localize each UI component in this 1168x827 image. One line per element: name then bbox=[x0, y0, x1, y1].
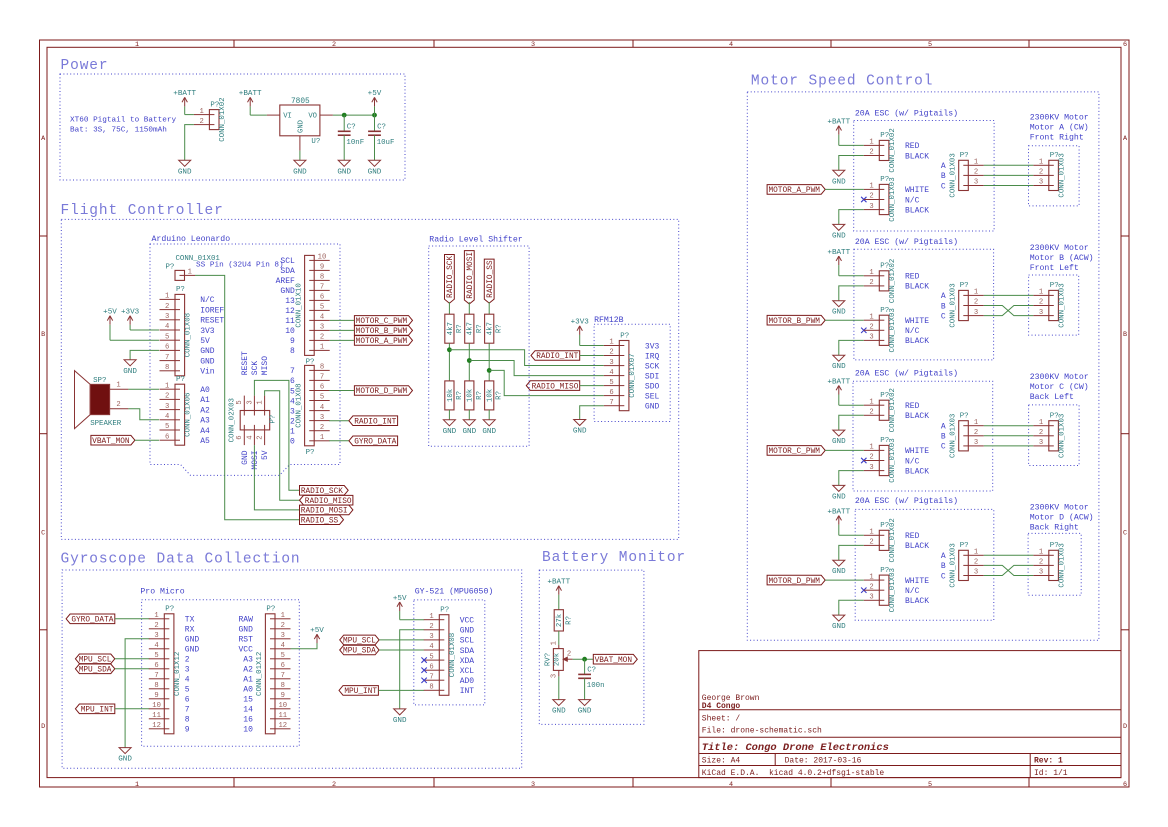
global label VBAT_MON (Arduino) bbox=[91, 435, 135, 446]
junction RADIO_SS divider node bbox=[487, 368, 492, 373]
svg-text:A1: A1 bbox=[200, 396, 210, 405]
svg-text:File: drone-schematic.sch: File: drone-schematic.sch bbox=[702, 726, 822, 735]
svg-text:3: 3 bbox=[165, 403, 169, 411]
pin name labels A0-A5 bbox=[200, 386, 210, 446]
svg-text:6: 6 bbox=[609, 389, 613, 397]
wire ESC A power pin 2 to GND bbox=[839, 156, 864, 171]
title block bbox=[699, 651, 1121, 779]
svg-text:CONN_01X03: CONN_01X03 bbox=[949, 153, 957, 197]
global label MOTOR_D_PWM bbox=[354, 386, 412, 397]
svg-text:RADIO_SS: RADIO_SS bbox=[487, 260, 495, 298]
svg-text:7: 7 bbox=[429, 673, 433, 681]
wire pin 6 to MOTOR_D_PWM bbox=[329, 390, 354, 392]
svg-text:SCK: SCK bbox=[645, 362, 660, 371]
pin labels RED BLACK (ESC D) bbox=[905, 532, 929, 551]
svg-text:GND: GND bbox=[832, 493, 846, 501]
resistor R? 4k7 (RADIO_SS) bbox=[485, 314, 504, 343]
pin name labels 3V3 IRQ SCK SDI SDO SEL GND bbox=[645, 342, 660, 411]
svg-text:B: B bbox=[941, 302, 946, 311]
svg-text:7: 7 bbox=[281, 672, 285, 680]
wire RV? pin 3 to GND bbox=[558, 676, 560, 699]
ground (ESC B signal) bbox=[832, 355, 846, 371]
svg-text:B: B bbox=[941, 562, 946, 571]
svg-text:P?: P? bbox=[166, 264, 175, 272]
wire +5V to GY-521 pin 1 bbox=[400, 619, 424, 621]
svg-text:3: 3 bbox=[154, 632, 158, 640]
connector P? CONN_01X12 (Pro Micro right) bbox=[256, 606, 290, 734]
svg-text:20A ESC (w/ Pigtails): 20A ESC (w/ Pigtails) bbox=[855, 237, 958, 247]
svg-text:BLACK: BLACK bbox=[905, 206, 929, 215]
svg-text:GND: GND bbox=[178, 168, 192, 176]
svg-text:KiCad E.D.A. kicad 4.0.2+dfsg: KiCad E.D.A. kicad 4.0.2+dfsg1-stable bbox=[702, 769, 885, 778]
svg-text:P?: P? bbox=[165, 606, 174, 614]
global label RADIO_MISO (RFM12B) bbox=[526, 381, 579, 392]
svg-text:N/C: N/C bbox=[200, 296, 215, 305]
svg-text:7: 7 bbox=[609, 399, 613, 407]
wire MOSI divider to RFM12B pin 4 bbox=[469, 361, 604, 376]
svg-text:CONN_01X12: CONN_01X12 bbox=[174, 652, 182, 696]
svg-text:5: 5 bbox=[609, 379, 613, 387]
svg-text:27k: 27k bbox=[556, 613, 564, 627]
svg-text:1: 1 bbox=[974, 549, 978, 557]
svg-text:Back Right: Back Right bbox=[1030, 522, 1079, 532]
svg-text:XCL: XCL bbox=[460, 667, 475, 676]
svg-text:GND: GND bbox=[293, 168, 307, 176]
svg-text:2: 2 bbox=[869, 583, 873, 591]
svg-text:WHITE: WHITE bbox=[905, 577, 929, 586]
svg-text:GND: GND bbox=[393, 717, 407, 725]
Battery Monitor dotted box bbox=[539, 570, 644, 724]
no-connect X on ESC C signal pin 2 bbox=[861, 458, 866, 463]
svg-text:Flight Controller: Flight Controller bbox=[61, 203, 224, 219]
svg-text:N/C: N/C bbox=[905, 327, 920, 336]
power symbol +BATT (regulator input) bbox=[239, 90, 262, 115]
resistor R? 10k (RADIO_MOSI) bbox=[465, 381, 484, 410]
svg-text:2: 2 bbox=[974, 429, 978, 437]
global label VBAT_MON (battery monitor) bbox=[593, 654, 637, 665]
svg-text:GND: GND bbox=[185, 646, 200, 655]
svg-text:C: C bbox=[41, 530, 45, 538]
wire ESC D phase B crossed to motor pin 3 bbox=[984, 565, 1034, 575]
svg-text:GND: GND bbox=[573, 428, 587, 436]
svg-text:A0: A0 bbox=[243, 686, 253, 695]
svg-text:4: 4 bbox=[729, 41, 733, 49]
svg-text:4: 4 bbox=[429, 643, 433, 651]
ground (RFM12B) bbox=[573, 420, 587, 436]
svg-text:1: 1 bbox=[869, 573, 873, 581]
connector P? CONN_01X10 (Arduino digital high header) bbox=[295, 254, 329, 367]
wire ESC B phase C crossed to motor pin 2 bbox=[984, 306, 1034, 316]
svg-text:GND: GND bbox=[832, 363, 846, 371]
connector P? CONN_01X08 (Arduino digital low header) bbox=[295, 364, 329, 457]
svg-text:RED: RED bbox=[905, 402, 920, 411]
pin labels A B C (ESC B output) bbox=[941, 292, 946, 321]
svg-text:INT: INT bbox=[460, 687, 475, 696]
svg-text:A0: A0 bbox=[200, 386, 210, 395]
resistor R? 4k7 (RADIO_SCK) bbox=[445, 314, 464, 343]
svg-text:10: 10 bbox=[152, 702, 161, 710]
global label RADIO_MISO (Arduino) bbox=[300, 495, 353, 506]
pin labels WHITE N/C BLACK (ESC D) bbox=[905, 577, 929, 606]
wire ICSP MISO to RADIO_MISO label bbox=[265, 391, 300, 501]
connector P? CONN_01X12 (Pro Micro left) bbox=[149, 606, 182, 734]
pin labels A B C (ESC A output) bbox=[941, 162, 946, 191]
wire P? pin 2 to GND bbox=[185, 125, 194, 161]
svg-text:12: 12 bbox=[285, 307, 295, 316]
svg-text:3V3: 3V3 bbox=[200, 327, 215, 336]
svg-text:3: 3 bbox=[974, 179, 978, 187]
svg-text:C: C bbox=[941, 312, 946, 321]
svg-text:6: 6 bbox=[165, 433, 169, 441]
svg-text:8: 8 bbox=[290, 347, 295, 356]
svg-text:1: 1 bbox=[257, 400, 265, 404]
svg-text:CONN_01X03: CONN_01X03 bbox=[1058, 543, 1066, 587]
wire C? 10uF to GND bbox=[374, 135, 376, 160]
svg-text:2: 2 bbox=[1039, 299, 1043, 307]
pin labels RED BLACK (ESC A) bbox=[905, 142, 929, 161]
svg-text:11: 11 bbox=[152, 712, 161, 720]
svg-text:5: 5 bbox=[429, 653, 433, 661]
svg-text:CONN_01X02: CONN_01X02 bbox=[889, 518, 897, 562]
svg-text:RV?: RV? bbox=[545, 653, 553, 666]
global label RADIO_INT (Arduino) bbox=[349, 416, 398, 427]
svg-text:CONN_01X07: CONN_01X07 bbox=[629, 353, 637, 397]
svg-text:CONN_01X03: CONN_01X03 bbox=[889, 438, 897, 482]
wire +BATT to P? pin 1 bbox=[185, 114, 194, 116]
wire RADIO_SCK to resistor bbox=[448, 302, 450, 314]
svg-text:Front Left: Front Left bbox=[1030, 263, 1079, 273]
svg-text:N/C: N/C bbox=[905, 196, 920, 205]
svg-text:2: 2 bbox=[974, 169, 978, 177]
svg-text:4k7: 4k7 bbox=[467, 322, 475, 335]
wire VO to +5V rail bbox=[333, 114, 375, 116]
svg-text:+BATT: +BATT bbox=[827, 119, 850, 127]
svg-text:5: 5 bbox=[290, 387, 295, 396]
svg-text:8: 8 bbox=[154, 682, 158, 690]
svg-text:VO: VO bbox=[308, 113, 317, 121]
svg-text:1: 1 bbox=[1039, 549, 1043, 557]
wire RADIO_INT to pin 2 bbox=[580, 355, 604, 357]
svg-text:2: 2 bbox=[320, 424, 324, 432]
svg-text:10: 10 bbox=[318, 254, 327, 262]
svg-text:20A ESC (w/ Pigtails): 20A ESC (w/ Pigtails) bbox=[855, 368, 958, 378]
global label MPU_SDA (Pro Micro) bbox=[75, 664, 114, 675]
svg-text:3: 3 bbox=[869, 464, 873, 472]
svg-text:GND: GND bbox=[460, 627, 475, 636]
ground (Pro Micro) bbox=[118, 748, 132, 764]
svg-text:9: 9 bbox=[290, 337, 295, 346]
svg-text:CONN_01X02: CONN_01X02 bbox=[889, 388, 897, 432]
svg-text:GND: GND bbox=[337, 168, 351, 176]
Motor Speed Control dotted box bbox=[747, 92, 1099, 640]
svg-text:1: 1 bbox=[869, 139, 873, 147]
svg-text:3: 3 bbox=[609, 359, 613, 367]
svg-text:GND: GND bbox=[241, 450, 250, 465]
pin labels WHITE N/C BLACK (ESC B) bbox=[905, 317, 929, 346]
connector P? CONN_01X02 (ESC D battery leads) bbox=[864, 518, 897, 562]
pin name labels VCC GND SCL SDA XDA XCL AD0 INT bbox=[460, 617, 475, 697]
ground (GY-521) bbox=[393, 709, 407, 725]
svg-text:8: 8 bbox=[320, 364, 324, 372]
svg-text:GND: GND bbox=[297, 120, 305, 133]
wire ESC B phase A to motor pin 1 bbox=[984, 294, 1034, 296]
svg-text:MPU_SDA: MPU_SDA bbox=[79, 667, 112, 675]
svg-text:GND: GND bbox=[645, 403, 660, 412]
svg-text:2: 2 bbox=[869, 149, 873, 157]
svg-text:GND: GND bbox=[552, 708, 566, 716]
global label MPU_INT (Pro Micro) bbox=[75, 704, 114, 715]
global label MOTOR_C_PWM bbox=[354, 316, 412, 327]
power symbol +BATT (ESC A) bbox=[827, 119, 850, 146]
svg-text:CONN_01X03: CONN_01X03 bbox=[889, 177, 897, 221]
no-connect X on pin 5 bbox=[421, 657, 426, 662]
svg-text:3: 3 bbox=[320, 414, 324, 422]
svg-text:13: 13 bbox=[285, 297, 295, 306]
wire RADIO_MOSI divider bbox=[468, 343, 470, 381]
svg-text:8: 8 bbox=[165, 364, 169, 372]
svg-text:7805: 7805 bbox=[291, 98, 310, 106]
pin name labels SCL SDA AREF GND 13-8 bbox=[276, 257, 295, 356]
wire 10k to GND (RADIO_MOSI) bbox=[468, 410, 470, 420]
svg-text:AD0: AD0 bbox=[460, 677, 475, 686]
wire pin 3 to MOTOR_B_PWM bbox=[330, 329, 355, 331]
svg-text:+5V: +5V bbox=[368, 90, 382, 98]
svg-text:15: 15 bbox=[243, 696, 253, 705]
svg-text:4: 4 bbox=[729, 781, 733, 789]
global label GYRO_DATA (Arduino) bbox=[349, 436, 398, 447]
svg-text:2: 2 bbox=[1039, 429, 1043, 437]
svg-text:2: 2 bbox=[869, 324, 873, 332]
svg-text:3: 3 bbox=[246, 400, 254, 404]
ground (100n) bbox=[578, 700, 592, 716]
text note XT60 Pigtail to Battery bbox=[70, 117, 176, 135]
svg-text:MPU_SDA: MPU_SDA bbox=[343, 648, 376, 656]
wire pin 3 to GND (Pro Micro) bbox=[125, 639, 149, 748]
svg-text:C: C bbox=[1123, 530, 1127, 538]
svg-text:RESET: RESET bbox=[200, 317, 224, 326]
svg-text:U?: U? bbox=[311, 138, 320, 146]
wire ICSP SCK to RADIO_SCK label bbox=[254, 380, 299, 490]
svg-text:VBAT_MON: VBAT_MON bbox=[595, 657, 633, 665]
svg-text:2: 2 bbox=[154, 622, 158, 630]
svg-text:8: 8 bbox=[429, 684, 433, 692]
svg-text:Motor D (ACW): Motor D (ACW) bbox=[1030, 512, 1094, 522]
connector P? CONN_01X03 (motor D) bbox=[1033, 542, 1066, 587]
wire RFM12B pin 7 to GND bbox=[580, 406, 604, 420]
wire GYRO_DATA to pin 1 bbox=[115, 618, 150, 620]
connector P? CONN_01X03 (ESC B output) bbox=[949, 282, 983, 327]
svg-text:C?: C? bbox=[377, 124, 386, 132]
svg-text:+BATT: +BATT bbox=[547, 579, 570, 587]
motor A dotted box bbox=[1029, 146, 1080, 206]
svg-text:2: 2 bbox=[165, 393, 169, 401]
svg-text:6: 6 bbox=[290, 377, 295, 386]
svg-text:+BATT: +BATT bbox=[827, 249, 850, 257]
ground (10uF) bbox=[368, 160, 382, 176]
svg-text:WHITE: WHITE bbox=[905, 186, 929, 195]
svg-text:4k7: 4k7 bbox=[487, 322, 495, 335]
global label RADIO_SCK (Arduino) bbox=[300, 486, 349, 497]
wire ESC A signal pin 3 to GND bbox=[839, 210, 864, 225]
svg-text:Sheet: /: Sheet: / bbox=[702, 714, 741, 723]
svg-text:MPU_INT: MPU_INT bbox=[344, 688, 377, 696]
svg-text:+3V3: +3V3 bbox=[121, 309, 140, 317]
svg-text:10: 10 bbox=[278, 702, 287, 710]
svg-text:GND: GND bbox=[832, 232, 846, 240]
wire ESC B signal pin 3 to GND bbox=[839, 340, 864, 355]
power symbol +5V (Arduino) bbox=[103, 309, 117, 341]
svg-text:12: 12 bbox=[278, 722, 287, 730]
svg-text:4: 4 bbox=[320, 314, 324, 322]
svg-text:P?: P? bbox=[176, 376, 185, 384]
wire ICSP MOSI to RADIO_MOSI label bbox=[254, 445, 299, 510]
wire MOTOR_A_PWM to signal pin 1 bbox=[825, 188, 864, 190]
svg-text:BLACK: BLACK bbox=[905, 152, 929, 161]
capacitor C? 10nF bbox=[338, 124, 364, 147]
ground (battery connector) bbox=[178, 160, 192, 176]
svg-text:1: 1 bbox=[974, 419, 978, 427]
wire +BATT to U? VI bbox=[250, 114, 267, 116]
svg-text:6: 6 bbox=[154, 662, 158, 670]
svg-text:Gyroscope Data Collection: Gyroscope Data Collection bbox=[61, 552, 301, 568]
wire ESC D power pin 2 to GND bbox=[839, 545, 864, 560]
svg-text:2: 2 bbox=[257, 435, 265, 439]
connector P? CONN_01X08 (GY-521) bbox=[424, 607, 457, 696]
svg-text:MOTOR_D_PWM: MOTOR_D_PWM bbox=[768, 578, 820, 586]
svg-text:3: 3 bbox=[974, 439, 978, 447]
global label RADIO_SS (level shifter, vertical) bbox=[484, 259, 495, 303]
svg-text:VI: VI bbox=[283, 113, 292, 121]
ESC C dotted box bbox=[853, 381, 993, 491]
svg-text:RESET: RESET bbox=[241, 351, 250, 375]
svg-text:6: 6 bbox=[185, 696, 190, 705]
svg-text:P?: P? bbox=[269, 415, 277, 424]
svg-text:2: 2 bbox=[185, 656, 190, 665]
wire ESC D phase A to motor pin 1 bbox=[984, 554, 1034, 556]
svg-text:P?: P? bbox=[176, 286, 185, 294]
svg-text:4: 4 bbox=[154, 642, 158, 650]
svg-text:1: 1 bbox=[429, 613, 433, 621]
wire +5V rail to capacitor C? 10uF bbox=[374, 115, 376, 131]
svg-text:1: 1 bbox=[135, 41, 139, 49]
ground (ESC B power) bbox=[832, 301, 846, 317]
svg-text:CONN_01X02: CONN_01X02 bbox=[889, 128, 897, 172]
svg-text:P?: P? bbox=[266, 606, 275, 614]
svg-text:GND: GND bbox=[832, 623, 846, 631]
wire ESC C phase C to motor pin 3 bbox=[984, 445, 1034, 447]
connector P? CONN_01X01 (SS pin) bbox=[166, 255, 221, 281]
svg-text:5: 5 bbox=[281, 652, 285, 660]
no-connect X on pin 7 bbox=[421, 678, 426, 683]
svg-text:1: 1 bbox=[200, 108, 204, 116]
svg-text:10uF: 10uF bbox=[377, 139, 395, 147]
svg-text:2300KV Motor: 2300KV Motor bbox=[1030, 503, 1089, 512]
svg-text:7: 7 bbox=[320, 284, 324, 292]
svg-text:8: 8 bbox=[281, 682, 285, 690]
global label MPU_SDA (GY-521) bbox=[340, 645, 379, 656]
svg-text:1: 1 bbox=[869, 183, 873, 191]
svg-text:1: 1 bbox=[165, 382, 169, 390]
svg-text:B: B bbox=[1123, 331, 1127, 339]
wire +3V3 to left header pin 4 bbox=[130, 329, 159, 331]
text 2300KV Motor block A bbox=[1030, 113, 1089, 142]
svg-text:CONN_01X03: CONN_01X03 bbox=[1058, 153, 1066, 197]
svg-text:3: 3 bbox=[869, 203, 873, 211]
svg-text:Id: 1/1: Id: 1/1 bbox=[1034, 769, 1068, 778]
svg-text:N/C: N/C bbox=[905, 457, 920, 466]
connector P? CONN_01X03 (motor B) bbox=[1033, 282, 1066, 327]
svg-text:CONN_01X03: CONN_01X03 bbox=[949, 414, 957, 458]
svg-text:2: 2 bbox=[116, 401, 120, 409]
ground (regulator) bbox=[293, 151, 307, 177]
svg-text:A5: A5 bbox=[200, 437, 210, 446]
global label RADIO_SCK (level shifter, vertical) bbox=[445, 255, 456, 304]
svg-text:GND: GND bbox=[832, 178, 846, 186]
svg-text:11: 11 bbox=[285, 317, 295, 326]
svg-text:P?: P? bbox=[440, 607, 449, 615]
svg-text:XDA: XDA bbox=[460, 657, 475, 666]
connector P? CONN_01X03 (ESC C signal leads) bbox=[864, 437, 897, 482]
resistor R? 4k7 (RADIO_MOSI) bbox=[465, 314, 484, 343]
svg-text:A: A bbox=[941, 552, 946, 561]
svg-text:6: 6 bbox=[429, 663, 433, 671]
wire ESC B power pin 2 to GND bbox=[839, 286, 864, 301]
svg-text:B: B bbox=[41, 331, 45, 339]
svg-text:SS Pin (32U4 Pin 8): SS Pin (32U4 Pin 8) bbox=[196, 262, 284, 270]
svg-text:1: 1 bbox=[1039, 289, 1043, 297]
motor D dotted box bbox=[1028, 533, 1081, 595]
svg-text:RADIO_INT: RADIO_INT bbox=[536, 353, 578, 361]
svg-text:MISO: MISO bbox=[261, 356, 270, 375]
svg-text:5: 5 bbox=[236, 400, 244, 404]
svg-text:2: 2 bbox=[1039, 169, 1043, 177]
power symbol +BATT (ESC D) bbox=[827, 508, 850, 535]
svg-text:10: 10 bbox=[243, 726, 253, 735]
svg-text:RADIO_MOSI: RADIO_MOSI bbox=[467, 252, 475, 299]
svg-text:P?: P? bbox=[960, 542, 969, 550]
global label RADIO_MOSI (Arduino) bbox=[300, 505, 353, 515]
wire +BATT to ESC B power pin 1 bbox=[839, 275, 864, 277]
no-connect X on pin 6 bbox=[421, 668, 426, 673]
wire GY-521 pin 2 to GND bbox=[400, 630, 424, 709]
svg-text:5: 5 bbox=[320, 304, 324, 312]
wire ESC D signal pin 3 to GND bbox=[839, 600, 864, 615]
svg-text:GND: GND bbox=[123, 368, 137, 376]
svg-text:VCC: VCC bbox=[238, 646, 253, 655]
svg-text:4: 4 bbox=[185, 676, 190, 685]
wire MPU_SDA to pin 6 bbox=[115, 668, 150, 670]
svg-text:100n: 100n bbox=[587, 682, 605, 690]
RFM12B dotted box bbox=[594, 324, 670, 421]
power symbol +BATT (battery monitor) bbox=[547, 579, 570, 610]
svg-text:A: A bbox=[941, 162, 946, 171]
resistor R? 10k (RADIO_SS) bbox=[485, 381, 504, 410]
svg-text:MOTOR_A_PWM: MOTOR_A_PWM bbox=[768, 187, 820, 195]
svg-text:CONN_01X03: CONN_01X03 bbox=[889, 568, 897, 612]
speaker SP? bbox=[75, 371, 129, 429]
svg-text:A3: A3 bbox=[200, 417, 210, 426]
svg-text:7: 7 bbox=[185, 706, 190, 715]
svg-text:SCL: SCL bbox=[460, 637, 475, 646]
svg-text:GND: GND bbox=[118, 756, 132, 764]
connector P? CONN_01X08 (Arduino power header) bbox=[160, 286, 193, 376]
svg-text:5: 5 bbox=[165, 333, 169, 341]
ground (ESC C power) bbox=[832, 430, 846, 446]
svg-text:GND: GND bbox=[832, 568, 846, 576]
svg-text:4: 4 bbox=[165, 413, 169, 421]
global label RADIO_MOSI (level shifter, vertical) bbox=[464, 251, 475, 304]
svg-text:CONN_01X03: CONN_01X03 bbox=[949, 283, 957, 327]
